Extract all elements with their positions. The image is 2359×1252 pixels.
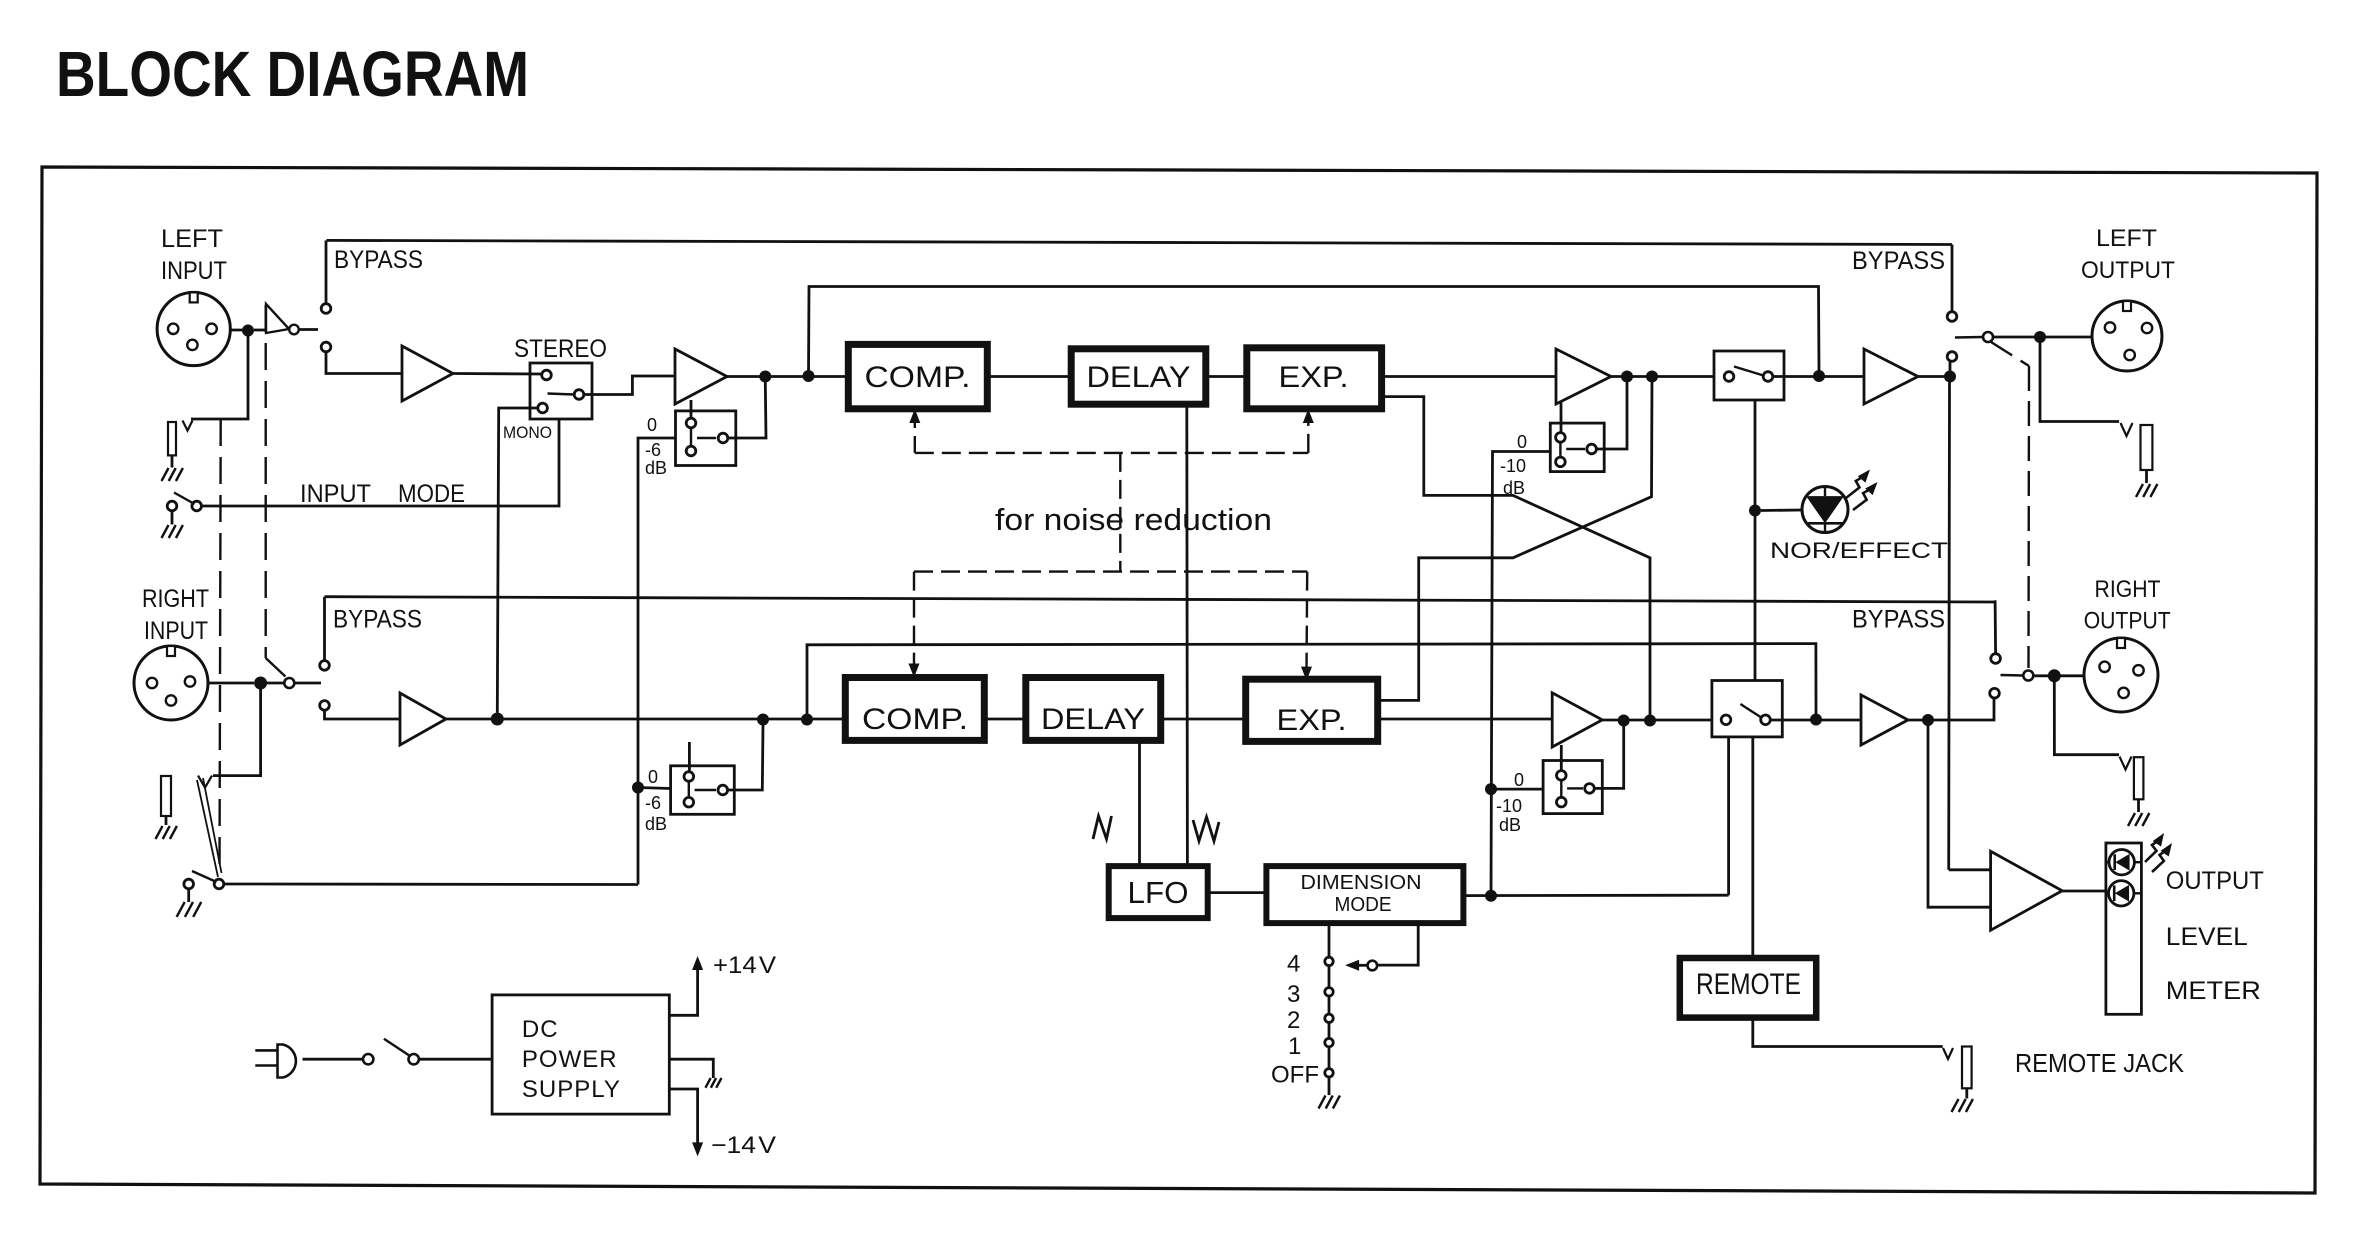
sine wave symbol — [1193, 817, 1219, 841]
triangle wave symbol — [1093, 816, 1112, 839]
selector wiper — [1378, 923, 1418, 965]
wire meter feed right — [1928, 720, 1991, 907]
node pre-comp B — [803, 370, 815, 382]
svg-text:-10: -10 — [1496, 796, 1522, 816]
node right input — [254, 677, 267, 690]
block COMP. left — [848, 344, 987, 408]
svg-text:DELAY: DELAY — [1087, 361, 1191, 394]
node dimension mode out — [1485, 890, 1497, 902]
wire — [171, 511, 174, 525]
svg-text:NOR/EFFECT: NOR/EFFECT — [1770, 538, 1948, 563]
selector contact 4 — [1325, 957, 1333, 965]
switch -10dB right contacts — [1557, 771, 1567, 781]
flash arrows meter — [2145, 840, 2160, 862]
wire — [303, 1058, 364, 1061]
wire pre-switch tap left — [809, 287, 1820, 377]
wire — [2062, 890, 2106, 893]
wire — [259, 677, 262, 689]
svg-text:LFO: LFO — [1128, 875, 1189, 910]
ground — [162, 468, 169, 481]
wire — [247, 325, 250, 337]
svg-text:BYPASS: BYPASS — [333, 605, 422, 633]
XLR connector right output J4 — [2084, 638, 2158, 712]
switch power — [363, 1054, 373, 1064]
svg-text:-10: -10 — [1500, 456, 1526, 476]
switch NOR/EFFECT right contacts — [1721, 715, 1731, 725]
svg-text:STEREO: STEREO — [514, 335, 607, 363]
phone jack left output — [2121, 423, 2133, 436]
phone jack right input — [198, 776, 212, 788]
svg-text:+14 V: +14 V — [713, 952, 776, 979]
amplifier A7 right — [1552, 693, 1602, 747]
svg-text:for noise reduction: for noise reduction — [995, 502, 1272, 537]
node left input — [242, 325, 254, 337]
flash arrows — [1846, 476, 1865, 498]
node -6 control — [632, 782, 644, 794]
svg-text:DIMENSION: DIMENSION — [1301, 872, 1422, 894]
ground — [177, 902, 185, 917]
wire -10 control — [1491, 452, 1550, 896]
wire — [729, 725, 763, 790]
wire to right output jack — [2054, 676, 2119, 755]
wire — [187, 889, 190, 902]
svg-text:COMP.: COMP. — [865, 361, 971, 394]
wire NOR link vertical — [1754, 400, 1757, 681]
wire — [1206, 375, 1247, 378]
wire to left output jack — [2040, 337, 2119, 422]
svg-text:MODE: MODE — [1335, 894, 1392, 916]
wire — [453, 372, 542, 375]
selector contact 3 — [1325, 988, 1333, 996]
wire — [224, 883, 638, 886]
svg-text:INPUT: INPUT — [144, 617, 208, 645]
svg-text:-6: -6 — [645, 440, 661, 460]
svg-text:dB: dB — [1503, 478, 1525, 498]
svg-text:−14 V: −14 V — [711, 1132, 776, 1159]
ground — [1319, 1096, 1326, 1109]
node right output tap — [1922, 714, 1934, 726]
amplifier A6 right — [400, 693, 446, 745]
wire to left input jack — [191, 337, 248, 420]
wire — [1993, 336, 2092, 339]
XLR connector left input J1 — [157, 292, 230, 365]
wire — [1597, 381, 1627, 449]
svg-text:BLOCK DIAGRAM: BLOCK DIAGRAM — [56, 38, 529, 110]
wire — [1965, 1088, 1968, 1098]
selector contact 1 — [1325, 1038, 1333, 1046]
wire right channel to comp — [446, 718, 845, 721]
wire mono link — [497, 408, 537, 713]
wire — [1908, 719, 1989, 722]
AC plug — [255, 1049, 278, 1052]
selector contact OFF — [1325, 1069, 1333, 1077]
wire — [690, 400, 693, 418]
svg-text:dB: dB — [645, 458, 667, 478]
svg-text:dB: dB — [1499, 815, 1521, 835]
selector contact 2 — [1325, 1014, 1333, 1022]
svg-text:0: 0 — [1514, 770, 1524, 790]
svg-text:0: 0 — [648, 767, 658, 787]
svg-text:BYPASS: BYPASS — [1852, 247, 1945, 275]
svg-text:OUTPUT: OUTPUT — [2084, 608, 2171, 635]
wire — [295, 682, 322, 685]
wire BYPASS right line — [325, 597, 1996, 602]
wire — [728, 382, 766, 438]
wire — [2137, 799, 2140, 812]
wire — [1382, 375, 1556, 378]
LED meter upper — [2106, 861, 2110, 863]
svg-text:-6: -6 — [645, 793, 661, 813]
wire — [1463, 894, 1728, 897]
wire ground out — [669, 1059, 713, 1078]
node right pre-comp A — [757, 714, 769, 726]
node post-amp right a — [1618, 715, 1630, 727]
block EXP. left — [1247, 348, 1382, 409]
wire crossover to right output — [1378, 377, 1652, 701]
wire — [2034, 674, 2085, 677]
svg-text:DELAY: DELAY — [1041, 703, 1145, 736]
wire — [1602, 719, 1712, 722]
wire — [1161, 718, 1246, 721]
svg-text:RIGHT: RIGHT — [2095, 576, 2161, 603]
wire — [1761, 509, 1802, 512]
wire — [1560, 745, 1563, 772]
node post-amp right b — [1644, 715, 1656, 727]
dashed noise reduction lower — [914, 570, 1307, 572]
switch -6dB right contacts — [684, 772, 694, 782]
node left output — [2034, 331, 2046, 343]
switch INPUT MODE — [167, 501, 177, 511]
switch -6dB left box — [676, 411, 736, 466]
svg-text:OUTPUT: OUTPUT — [2081, 257, 2175, 284]
link dashed line A — [220, 419, 221, 875]
wire — [1994, 600, 1997, 653]
switch NOR/EFFECT left box — [1714, 351, 1784, 400]
amplifier A9 meter — [1991, 851, 2063, 930]
wire — [987, 375, 1071, 378]
wire — [326, 352, 402, 374]
svg-text:0: 0 — [1517, 432, 1527, 452]
switch output right contacts — [1991, 654, 2001, 664]
block DELAY left — [1071, 349, 1206, 404]
wire — [1773, 375, 1864, 378]
svg-text:SUPPLY: SUPPLY — [522, 1076, 621, 1103]
svg-text:LEFT: LEFT — [2096, 225, 2157, 252]
phone jack left input — [183, 421, 193, 431]
block COMP. right — [845, 678, 984, 741]
XLR connector right input J2 — [134, 646, 208, 720]
wire — [638, 788, 671, 789]
ground — [162, 525, 169, 538]
wire — [1918, 375, 1945, 378]
LED NOR/EFFECT — [1802, 487, 1848, 533]
switch -10dB left contacts — [1556, 433, 1566, 443]
wire — [984, 718, 1026, 721]
node left output tap — [1944, 371, 1956, 383]
svg-text:4: 4 — [1287, 950, 1300, 977]
wire — [1989, 698, 1994, 720]
svg-text:EXP.: EXP. — [1277, 704, 1347, 737]
switch -10dB left box — [1550, 423, 1604, 472]
wire — [1611, 375, 1714, 378]
svg-text:OUTPUT: OUTPUT — [2166, 867, 2264, 895]
amplifier A4 — [1556, 349, 1611, 404]
ground — [156, 826, 163, 839]
amplifier A2 — [402, 346, 453, 401]
svg-text:BYPASS: BYPASS — [1852, 605, 1945, 633]
wire — [1491, 788, 1543, 791]
amplifier A8 right — [1861, 695, 1908, 745]
svg-text:DC: DC — [522, 1016, 559, 1043]
phone jack remote — [1943, 1048, 1953, 1059]
wire — [1771, 719, 1861, 722]
switch output left contacts — [1947, 312, 1957, 322]
node right pre-comp B — [801, 714, 813, 726]
switch stereo/mono box — [530, 363, 592, 419]
wire — [688, 742, 691, 771]
wire — [1560, 402, 1563, 433]
wire to right input jack — [213, 689, 261, 776]
wire crossover from left EXP — [1382, 397, 1650, 715]
wire — [1378, 718, 1553, 721]
wire BYPASS left line — [327, 240, 1953, 244]
wire — [325, 710, 401, 719]
node post-switch right — [1810, 714, 1822, 726]
node post-amp A4 b — [1646, 371, 1658, 383]
switch NOR/EFFECT right box — [1712, 681, 1782, 737]
wire right pre-comp tap — [807, 644, 1816, 720]
node pre-comp A — [759, 371, 771, 383]
switch -6dB left contacts — [686, 418, 696, 428]
node post-amp A4 a — [1621, 371, 1633, 383]
svg-text:EXP.: EXP. — [1279, 361, 1349, 394]
block EXP. right — [1246, 679, 1378, 741]
node -10 control right — [1485, 783, 1497, 795]
wire — [1949, 868, 1991, 871]
wire — [171, 455, 174, 467]
phone jack right output — [2120, 757, 2132, 770]
XLR connector left output J3 — [2092, 301, 2162, 371]
wire — [1751, 737, 1754, 958]
wire — [230, 329, 248, 332]
wire meter feed left — [1947, 383, 1951, 870]
amplifier A3 — [675, 349, 727, 404]
block LFO — [1109, 866, 1208, 918]
svg-text:INPUT: INPUT — [300, 480, 371, 508]
svg-text:RIGHT: RIGHT — [142, 585, 209, 613]
switch bypass right, contacts — [320, 661, 330, 671]
switch bypass right, pole — [284, 678, 294, 688]
ground — [2128, 813, 2135, 826]
link dashed output switches — [1991, 342, 2029, 366]
switch output left common — [1983, 332, 1993, 342]
svg-text:POWER: POWER — [522, 1046, 618, 1073]
wire — [1328, 966, 1331, 988]
wire — [208, 682, 254, 685]
wire — [323, 597, 326, 661]
svg-text:MODE: MODE — [398, 480, 465, 508]
jack switch arms — [197, 780, 218, 877]
switch output right common — [2023, 671, 2033, 681]
ground — [2136, 484, 2143, 497]
wire — [1753, 1018, 1943, 1047]
wire -14V — [669, 1089, 697, 1150]
node post-switch left — [1813, 370, 1825, 382]
wire selector — [1328, 923, 1331, 956]
ground — [1952, 1099, 1959, 1112]
switch lever — [548, 394, 575, 395]
svg-text:BYPASS: BYPASS — [334, 246, 423, 274]
svg-text:INPUT: INPUT — [161, 257, 227, 285]
svg-text:METER: METER — [2166, 977, 2261, 1005]
svg-text:COMP.: COMP. — [862, 703, 968, 736]
svg-text:MONO: MONO — [503, 423, 552, 442]
wire delay right to LFO — [1138, 740, 1141, 866]
block DC POWER SUPPLY — [492, 995, 669, 1114]
svg-text:0: 0 — [647, 415, 657, 435]
switch stereo/mono contacts — [542, 370, 552, 380]
svg-text:REMOTE JACK: REMOTE JACK — [2015, 1048, 2185, 1078]
switch effect level (lower left) — [184, 879, 194, 889]
wire stereo out — [584, 376, 675, 395]
LED meter lower — [2106, 892, 2109, 894]
block DIMENSION MODE — [1266, 866, 1463, 923]
wire input mode — [202, 420, 560, 507]
switch NOR/EFFECT left contacts — [1724, 372, 1734, 382]
wire — [325, 240, 328, 303]
switch -6dB right box — [671, 766, 735, 815]
node right output — [2048, 669, 2061, 682]
wire — [1727, 737, 1730, 895]
wire — [1949, 371, 1952, 383]
node mono join — [491, 713, 504, 726]
meter body — [2106, 843, 2142, 1014]
border frame — [40, 167, 2317, 1193]
wire delay left to LFO — [1185, 404, 1188, 866]
wire — [2145, 470, 2148, 483]
svg-text:1: 1 — [1288, 1033, 1301, 1060]
wire — [727, 375, 848, 378]
wire +14V — [669, 962, 697, 1015]
block DELAY right — [1026, 678, 1161, 741]
link dashed line B — [265, 305, 267, 658]
wire — [165, 816, 168, 825]
dashed noise reduction middle — [1119, 453, 1121, 572]
block REMOTE — [1680, 958, 1816, 1018]
wire — [1595, 726, 1623, 788]
dashed noise reduction upper — [909, 409, 920, 423]
wire — [299, 328, 318, 331]
wire — [1951, 245, 1954, 312]
wire — [1208, 891, 1267, 894]
wire — [419, 1058, 492, 1061]
ground — [705, 1078, 710, 1088]
switch -10dB right box — [1543, 761, 1602, 814]
svg-text:LEFT: LEFT — [161, 225, 223, 253]
svg-text:REMOTE: REMOTE — [1696, 968, 1801, 1001]
amplifier A5 — [1864, 349, 1918, 404]
svg-text:3: 3 — [1287, 981, 1300, 1008]
svg-text:2: 2 — [1287, 1007, 1300, 1034]
svg-text:dB: dB — [645, 814, 667, 834]
switch bypass left, contacts — [321, 304, 331, 314]
svg-text:LEVEL: LEVEL — [2166, 923, 2248, 951]
wire -6 control vertical — [638, 438, 676, 885]
node LED tap — [1749, 505, 1761, 517]
buffer amp A1 — [266, 304, 289, 333]
svg-text:OFF: OFF — [1271, 1062, 1319, 1089]
